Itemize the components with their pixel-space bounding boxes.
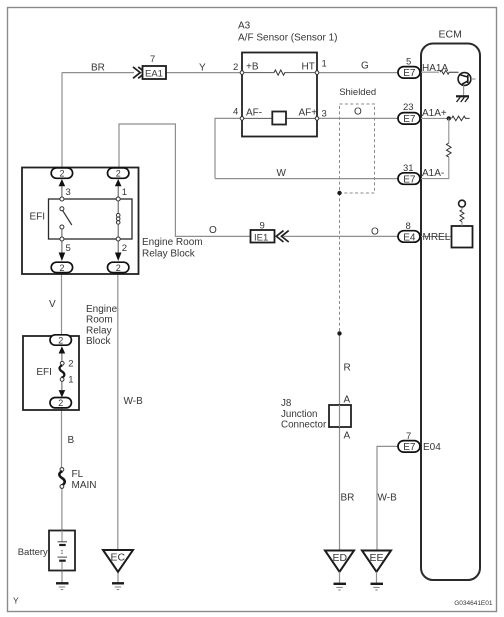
svg-text:7: 7 bbox=[150, 54, 155, 65]
svg-text:7: 7 bbox=[406, 431, 411, 442]
shield dashed box bbox=[340, 104, 375, 193]
ground triangle ED bbox=[325, 551, 354, 572]
relay oval 2 bottom-left bbox=[51, 262, 72, 272]
svg-text:FL: FL bbox=[72, 469, 84, 480]
svg-text:E7: E7 bbox=[403, 442, 416, 453]
FL MAIN squiggle bbox=[59, 471, 64, 485]
svg-text:A1A-: A1A- bbox=[422, 168, 444, 179]
wire pin2 to arrow bbox=[117, 241, 119, 253]
svg-text:EA1: EA1 bbox=[145, 69, 163, 80]
svg-text:Engine Room: Engine Room bbox=[142, 237, 203, 248]
connector oval E7 pin7 E04 bbox=[398, 431, 441, 453]
pin 2 circle bbox=[240, 71, 244, 75]
svg-text:Connector: Connector bbox=[281, 420, 327, 431]
pin 1 circle bbox=[315, 71, 319, 75]
svg-text:R: R bbox=[344, 363, 351, 374]
wire arrow to pin3 bbox=[61, 186, 63, 197]
ECM internal MREL wire bbox=[421, 236, 452, 238]
EFI fuse top circle bbox=[60, 361, 64, 365]
switch blade bbox=[63, 210, 72, 225]
svg-text:O: O bbox=[354, 107, 362, 118]
svg-text:2: 2 bbox=[68, 359, 73, 370]
svg-text:W-B: W-B bbox=[378, 493, 398, 504]
svg-text:A: A bbox=[344, 395, 351, 406]
G0 wires group bbox=[62, 73, 402, 583]
svg-text:BR: BR bbox=[341, 493, 355, 504]
svg-text:2: 2 bbox=[122, 243, 127, 254]
svg-text:+B: +B bbox=[246, 62, 259, 73]
svg-text:Relay: Relay bbox=[86, 325, 112, 336]
svg-text:MREL: MREL bbox=[423, 232, 451, 243]
svg-text:A/F Sensor (Sensor 1): A/F Sensor (Sensor 1) bbox=[238, 32, 337, 43]
relay2 wire bottom bbox=[61, 381, 63, 390]
svg-text:ECM: ECM bbox=[439, 28, 462, 40]
svg-text:2: 2 bbox=[58, 398, 63, 408]
svg-text:J8: J8 bbox=[281, 398, 292, 409]
svg-text:1: 1 bbox=[122, 187, 127, 198]
svg-text:4: 4 bbox=[233, 106, 238, 117]
svg-text:31: 31 bbox=[403, 163, 414, 174]
svg-text:Block: Block bbox=[86, 336, 111, 347]
svg-text:Battery: Battery bbox=[18, 547, 48, 558]
connector oval E7 pin23 bbox=[398, 102, 447, 125]
junction dot shield bottom bbox=[337, 331, 341, 335]
svg-text:E04: E04 bbox=[423, 442, 441, 453]
arrow down right bbox=[115, 253, 122, 262]
wire J8 to ED bbox=[339, 427, 341, 551]
svg-text:IE1: IE1 bbox=[254, 232, 268, 243]
wire BR vertical down to relay block bbox=[61, 73, 63, 169]
svg-text:2: 2 bbox=[233, 62, 238, 73]
battery box bbox=[49, 531, 75, 571]
wire A1A+ down bbox=[448, 118, 450, 143]
battery ground bbox=[56, 582, 69, 584]
wire G sensor pin1 to E7 bbox=[319, 72, 401, 74]
relay2 arrow up bbox=[59, 346, 66, 353]
relay2 oval bottom bbox=[50, 398, 71, 408]
junction dot A1A+ bbox=[447, 116, 451, 120]
resistor A1A vertical bbox=[447, 143, 452, 157]
pin 3 circle bbox=[315, 117, 319, 121]
svg-text:EC: EC bbox=[111, 552, 126, 564]
svg-text:2: 2 bbox=[58, 335, 63, 345]
svg-text:A3: A3 bbox=[238, 21, 251, 32]
ECM internal A1A+ wire bbox=[421, 117, 449, 119]
A/F sensor box A3 bbox=[242, 53, 317, 137]
battery internals bbox=[61, 531, 63, 542]
wire pin5 to arrow bbox=[61, 241, 63, 253]
connector IE1 box bbox=[251, 230, 275, 243]
svg-text:2: 2 bbox=[116, 168, 121, 178]
wire through J8 bbox=[339, 405, 341, 427]
wire resistor to circle bbox=[461, 207, 463, 210]
svg-text:1: 1 bbox=[322, 59, 327, 70]
svg-text:E7: E7 bbox=[403, 68, 416, 79]
MREL supply circle bbox=[459, 200, 466, 207]
svg-text:MAIN: MAIN bbox=[72, 480, 97, 491]
wire BR horizontal bbox=[62, 72, 134, 74]
svg-text:AF+: AF+ bbox=[299, 108, 318, 119]
connector oval E7 pin31 bbox=[398, 163, 444, 185]
wire battery to ground bbox=[61, 571, 63, 584]
arrow up left bbox=[59, 179, 66, 186]
wire arrow to pin1 bbox=[117, 186, 119, 197]
svg-text:Room: Room bbox=[86, 315, 113, 326]
transistor emitter wire to ground bbox=[463, 85, 465, 96]
connector oval E7 pin5 bbox=[398, 56, 448, 79]
sensor element square bbox=[272, 112, 286, 125]
svg-text:3: 3 bbox=[322, 109, 327, 120]
connector EA1 box bbox=[143, 66, 167, 79]
relay oval 2 top-right bbox=[108, 168, 129, 178]
wire AF- left and down bbox=[215, 118, 240, 178]
svg-text:O: O bbox=[209, 225, 217, 236]
wire V relay1 to relay2 bbox=[61, 272, 63, 335]
svg-text:E7: E7 bbox=[403, 114, 416, 125]
svg-text:2: 2 bbox=[60, 263, 65, 273]
pin1 contact circle bbox=[116, 197, 120, 201]
heater wire inside bbox=[242, 72, 317, 74]
svg-text:W-B: W-B bbox=[124, 396, 144, 407]
svg-text:Shielded: Shielded bbox=[339, 87, 376, 98]
svg-text:A1A+: A1A+ bbox=[422, 108, 447, 119]
ground triangle EE bbox=[362, 551, 391, 572]
FL MAIN fuse top circle bbox=[60, 468, 64, 472]
svg-text:V: V bbox=[49, 299, 56, 310]
shield drain dashed wire bbox=[339, 193, 341, 333]
svg-text:9: 9 bbox=[260, 221, 265, 232]
switch wire lower bbox=[61, 229, 63, 237]
relay inner box bbox=[49, 199, 133, 239]
EE wire to ground bbox=[376, 572, 378, 583]
svg-text:3: 3 bbox=[66, 187, 71, 198]
ECM box bbox=[421, 44, 480, 581]
wire E04 to EE bbox=[377, 446, 400, 550]
connector IE1 chevrons bbox=[276, 231, 288, 242]
svg-text:2: 2 bbox=[60, 168, 65, 178]
EFI fuse squiggle bbox=[60, 365, 65, 378]
wire O AF+ to E7(23) bbox=[319, 117, 401, 119]
svg-text:BR: BR bbox=[91, 63, 105, 74]
wire EC apex to ground bbox=[117, 572, 119, 583]
svg-text:G034641E01: G034641E01 bbox=[454, 600, 493, 607]
junction dot shield top bbox=[337, 191, 341, 195]
wire W to E7(31) bbox=[215, 178, 401, 180]
resistor MREL vertical bbox=[460, 210, 464, 222]
wire Y EA1 to sensor pin2 bbox=[166, 72, 240, 74]
relay2 oval top bbox=[50, 335, 71, 345]
svg-text:EE: EE bbox=[370, 552, 384, 564]
svg-text:E4: E4 bbox=[403, 232, 416, 243]
svg-text:2: 2 bbox=[116, 263, 121, 273]
connector EA1 chevrons bbox=[133, 67, 145, 78]
svg-text:ED: ED bbox=[333, 552, 348, 564]
relay2 wire top bbox=[61, 354, 63, 361]
svg-text:5: 5 bbox=[406, 56, 411, 67]
wire O from IE1 to E4 bbox=[284, 235, 401, 237]
svg-text:HA1A: HA1A bbox=[422, 63, 448, 74]
ECM internal HA1A resistor wire bbox=[421, 71, 439, 73]
pin2 contact circle bbox=[116, 237, 120, 241]
J8 junction connector box bbox=[329, 405, 351, 427]
resistor heater bbox=[274, 70, 286, 75]
relay block 1 outer box bbox=[22, 168, 139, 275]
pin 4 circle bbox=[240, 117, 244, 121]
svg-text:AF-: AF- bbox=[246, 108, 262, 119]
connector oval E4 pin8 bbox=[398, 221, 451, 243]
transistor ECM bbox=[458, 73, 471, 86]
svg-text:EFI: EFI bbox=[30, 212, 46, 223]
relay coil bbox=[117, 201, 119, 214]
svg-text:W: W bbox=[277, 168, 287, 179]
svg-text:Y: Y bbox=[13, 595, 19, 605]
svg-text:B: B bbox=[68, 435, 75, 446]
FL MAIN fuse bottom circle bbox=[60, 485, 64, 489]
svg-text:Engine: Engine bbox=[86, 304, 118, 315]
relay block 2 outer box bbox=[23, 336, 79, 410]
resistor HA1A bbox=[440, 70, 458, 74]
arrow up right bbox=[115, 179, 122, 186]
svg-text:Y: Y bbox=[199, 63, 206, 74]
relay oval 2 top-left bbox=[51, 168, 72, 178]
svg-text:Relay Block: Relay Block bbox=[142, 248, 196, 259]
wire FL MAIN to battery bbox=[61, 488, 63, 530]
wire W-B relay1 to EC bbox=[117, 272, 119, 551]
svg-text:HT: HT bbox=[302, 62, 315, 73]
svg-text:G: G bbox=[361, 61, 369, 72]
EFI fuse bottom circle bbox=[60, 378, 64, 382]
svg-text:5: 5 bbox=[66, 243, 71, 254]
wire shield drain solid to J8 bbox=[339, 333, 341, 405]
ED wire to ground bbox=[339, 572, 341, 583]
chassis ground ECM bbox=[456, 95, 469, 97]
EE ground bars bbox=[371, 583, 384, 585]
svg-text:EFI: EFI bbox=[36, 367, 52, 378]
resistor A1A+ horizontal bbox=[452, 116, 470, 121]
svg-text:O: O bbox=[371, 227, 379, 238]
sensor cell wire inside bbox=[242, 117, 317, 119]
ground triangle EC bbox=[103, 550, 133, 572]
switch contact upper bbox=[60, 207, 64, 211]
svg-text:8: 8 bbox=[406, 221, 411, 232]
wire A1A- up from resistor bbox=[421, 157, 449, 178]
svg-text:1: 1 bbox=[68, 374, 73, 385]
ED ground bars bbox=[334, 583, 347, 585]
svg-text:E7: E7 bbox=[403, 174, 416, 185]
relay oval 2 bottom-right bbox=[108, 262, 129, 272]
EC ground bars bbox=[112, 582, 124, 584]
wire MREL box up bbox=[461, 222, 463, 226]
MREL driver box bbox=[452, 226, 473, 248]
svg-text:Junction: Junction bbox=[281, 409, 318, 420]
relay2 arrow down bbox=[59, 390, 66, 397]
pin5 contact circle bbox=[60, 237, 64, 241]
svg-text:A: A bbox=[344, 431, 351, 442]
arrow down left bbox=[59, 253, 66, 262]
transistor collector stub bbox=[471, 78, 476, 80]
svg-text:23: 23 bbox=[403, 102, 414, 113]
wire relay coil to MREL: up over and down bbox=[119, 124, 250, 236]
pin3 contact circle bbox=[60, 197, 64, 201]
wire B relay2 to FL MAIN bbox=[61, 408, 63, 468]
switch contact lower bbox=[60, 225, 64, 229]
